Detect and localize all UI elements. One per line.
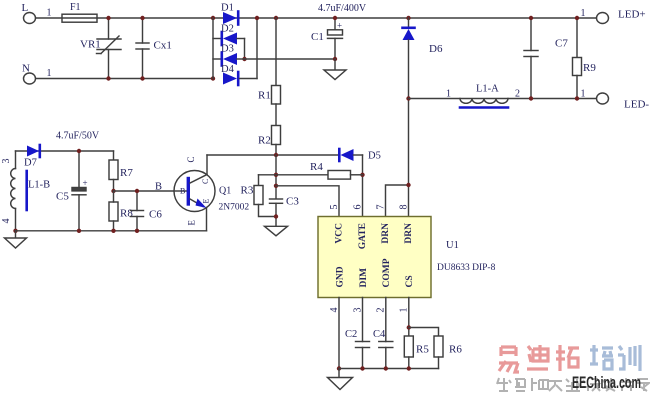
node dot C5 bottom (77, 229, 81, 233)
node dot base left (111, 189, 115, 193)
capacitor Cx1 (142, 18, 144, 43)
wire vcc node vertical (275, 155, 277, 199)
ground below C3 (265, 226, 288, 236)
node dot VR1 bottom (106, 76, 110, 80)
svg-text:R9: R9 (583, 62, 596, 74)
diode D5 (338, 149, 341, 161)
svg-text:R3: R3 (241, 185, 254, 197)
wire bottom common (339, 368, 439, 370)
node dot C1 bottom (333, 57, 337, 61)
svg-text:4: 4 (1, 219, 12, 224)
svg-text:2N7002: 2N7002 (219, 203, 250, 213)
resistor R6 (434, 336, 443, 357)
capacitor C7 (530, 18, 532, 51)
node dot SW node (406, 96, 410, 100)
resistor R3 (258, 175, 260, 186)
watermark char 训 (618, 345, 640, 371)
wire N rail (36, 78, 213, 80)
node dot Cx1 bottom (140, 76, 144, 80)
ground below C1 (334, 59, 336, 70)
wire D6 vertical (408, 40, 410, 185)
terminal L (24, 13, 36, 24)
diode D1 (223, 12, 237, 24)
wire R1 feed vertical (275, 18, 277, 86)
watermark char 培 (590, 345, 613, 369)
node dot C4 bottom (384, 366, 388, 370)
svg-text:GND: GND (336, 266, 346, 287)
wire CS pin1 (408, 298, 410, 337)
svg-text:C7: C7 (555, 38, 568, 50)
capacitor C3 (270, 198, 283, 200)
resistor R5 (404, 336, 413, 357)
node dot D3 right (242, 57, 246, 61)
IC U1 DU8633 (318, 217, 431, 298)
svg-text:D6: D6 (429, 43, 443, 55)
svg-text:C2: C2 (345, 329, 357, 340)
wire base (114, 190, 175, 192)
resistor R4 (259, 174, 329, 176)
svg-text:R8: R8 (120, 208, 133, 220)
svg-text:Cx1: Cx1 (154, 40, 172, 52)
node dot R5 bottom (407, 366, 411, 370)
svg-text:LED-: LED- (624, 99, 649, 111)
wire top AC/DC rail (36, 17, 597, 19)
diode D4 (223, 73, 237, 85)
svg-text:7: 7 (376, 205, 387, 210)
svg-text:Q1: Q1 (219, 186, 231, 197)
svg-text:1: 1 (47, 68, 52, 79)
svg-text:B: B (180, 187, 185, 196)
resistor R7 (113, 151, 115, 160)
svg-text:D5: D5 (368, 151, 381, 162)
node dot CS (407, 325, 411, 329)
wire collector to D5 (207, 154, 339, 156)
svg-text:5: 5 (329, 205, 340, 210)
watermark gray tagline (497, 378, 649, 391)
svg-text:N: N (22, 63, 30, 75)
wire R1-R2 (275, 104, 277, 126)
capacitor C5 (78, 151, 80, 188)
node dot R8 bottom (111, 229, 115, 233)
wire aux top (16, 150, 114, 152)
fuse F1 (62, 14, 97, 22)
wire D4 to top rail (256, 18, 258, 79)
watermark char 迪 (527, 345, 548, 369)
terminal LED- (597, 93, 609, 104)
node dot L1-B bottom (13, 229, 17, 233)
svg-text:R4: R4 (310, 161, 323, 173)
svg-text:COMP: COMP (382, 258, 392, 287)
svg-text:1: 1 (581, 89, 586, 100)
svg-text:1: 1 (399, 308, 410, 313)
terminal LED+ (597, 13, 609, 24)
svg-text:D2: D2 (221, 24, 234, 35)
diode D2 (213, 38, 222, 40)
inductor L1-B (15, 151, 17, 169)
ground main (338, 369, 340, 378)
capacitor C6 (136, 191, 138, 211)
wire gate vertical pin6 (362, 155, 364, 217)
resistor R1 (272, 86, 281, 105)
node dot R9 top (575, 16, 579, 20)
wire DRN pins 7/8 (386, 185, 409, 217)
svg-text:R6: R6 (449, 344, 462, 356)
svg-text:U1: U1 (446, 240, 459, 251)
svg-text:DRN: DRN (404, 223, 414, 244)
wire R2 bottom (275, 145, 277, 156)
node dot Cx1 top (140, 16, 144, 20)
node dot bridge left bottom (211, 76, 215, 80)
node dot bridge left top (211, 16, 215, 20)
svg-text:1: 1 (446, 89, 451, 100)
svg-text:C: C (201, 179, 210, 184)
svg-text:D1: D1 (221, 3, 234, 14)
svg-text:C3: C3 (286, 196, 299, 208)
node dot node-R4row (274, 173, 278, 177)
svg-text:CS: CS (405, 275, 415, 287)
node dot C1 top (333, 16, 337, 20)
svg-text:C6: C6 (149, 209, 162, 221)
diode D3 (213, 58, 222, 60)
watermark char 拓 (556, 345, 579, 371)
svg-text:D7: D7 (24, 158, 37, 169)
transistor Q1 (174, 171, 215, 212)
diode D6 (408, 18, 410, 28)
node dot gate R4 (360, 173, 364, 177)
svg-text:DU8633 DIP-8: DU8633 DIP-8 (437, 263, 496, 273)
wire emitter bottom rail (16, 230, 207, 232)
svg-text:1: 1 (47, 8, 52, 19)
svg-text:4.7uF/50V: 4.7uF/50V (56, 131, 100, 142)
svg-text:EEChina.com: EEChina.com (572, 373, 641, 392)
wire output bottom rail (409, 98, 598, 100)
terminal N (24, 73, 36, 84)
svg-text:R1: R1 (258, 90, 271, 102)
svg-text:+: + (337, 21, 342, 31)
svg-text:6: 6 (353, 205, 364, 210)
node dot node-VCCrow (274, 184, 278, 188)
node dot R1 top (274, 16, 278, 20)
node dot C7 bottom (529, 96, 533, 100)
node dot C2 bottom (360, 366, 364, 370)
node dot R2 bottom (274, 153, 278, 157)
svg-text:1: 1 (581, 8, 586, 19)
svg-text:8: 8 (399, 205, 410, 210)
svg-text:R5: R5 (416, 344, 429, 356)
svg-text:D3: D3 (221, 44, 234, 55)
node dot C3 bottom (274, 214, 278, 218)
svg-text:R2: R2 (258, 135, 271, 147)
svg-text:DIM: DIM (359, 268, 369, 288)
resistor R8 (109, 202, 118, 221)
wire DC- horizontal to C1 (245, 58, 336, 60)
ground aux (15, 231, 17, 238)
node dot C5 top (77, 149, 81, 153)
node dot C6 bottom (135, 229, 139, 233)
wire CS to R6 (409, 328, 439, 337)
svg-text:L: L (22, 2, 29, 14)
svg-text:C4: C4 (373, 329, 386, 340)
capacitor C2 (362, 298, 364, 342)
capacitor C1 (334, 18, 336, 29)
diode D7 (27, 146, 39, 157)
node dot GND (337, 366, 341, 370)
svg-text:E: E (187, 220, 197, 226)
svg-text:B: B (155, 182, 162, 193)
svg-text:C1: C1 (311, 31, 324, 43)
node dot DRN junction (406, 183, 410, 187)
watermark char 易 (499, 347, 519, 372)
varistor VR1 (108, 18, 110, 39)
node dot VR1 top (106, 16, 110, 20)
svg-text:E: E (202, 199, 211, 204)
resistor R9 (576, 18, 578, 58)
node dot R9 bottom (575, 96, 579, 100)
svg-text:4.7uF/400V: 4.7uF/400V (318, 3, 367, 14)
svg-text:VR1: VR1 (80, 39, 101, 51)
svg-text:2: 2 (376, 308, 387, 313)
wire GND pin4 (338, 298, 340, 369)
node dot D6 top (406, 16, 410, 20)
node dot C6 top (135, 189, 139, 193)
svg-text:GATE: GATE (358, 223, 368, 249)
svg-text:L1-B: L1-B (28, 180, 50, 191)
wire VCC pin5 (276, 186, 339, 217)
svg-text:F1: F1 (70, 2, 81, 13)
svg-text:C5: C5 (56, 191, 69, 203)
svg-text:C: C (186, 156, 196, 162)
svg-text:L1-A: L1-A (476, 84, 499, 95)
svg-text:2: 2 (515, 89, 520, 100)
wire bridge left vertical (212, 18, 214, 79)
resistor R2 (272, 126, 281, 145)
svg-text:DRN: DRN (381, 223, 391, 244)
node dot D4 top (255, 16, 259, 20)
svg-text:3: 3 (1, 159, 12, 164)
capacitor C4 (385, 298, 387, 342)
wire D2-D3 right vertical (244, 39, 246, 60)
svg-text:+: + (83, 178, 88, 188)
svg-text:R7: R7 (120, 167, 133, 179)
svg-text:LED+: LED+ (618, 9, 646, 21)
svg-text:D4: D4 (221, 64, 235, 75)
svg-text:VCC: VCC (335, 223, 345, 244)
node dot C7 top (529, 16, 533, 20)
